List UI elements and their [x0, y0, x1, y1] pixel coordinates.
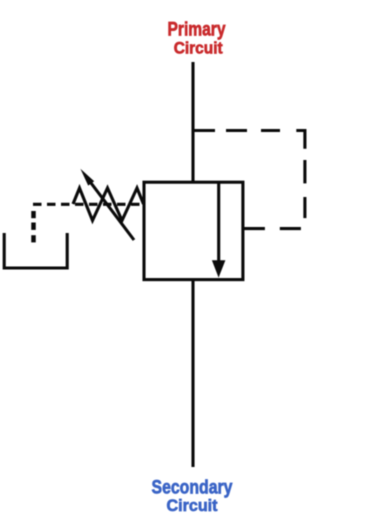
pilot line: right vertical dash 2 [303, 197, 306, 218]
drain pilot line: vertical dot 3 [31, 235, 36, 242]
svg-text:Circuit: Circuit [167, 496, 218, 515]
drain pilot line: vertical dot 1 [31, 211, 36, 218]
pilot line: corner dash (L shaped) [296, 131, 305, 149]
adjustability arrow (head) [80, 169, 94, 186]
drain pilot line: horizontal dashed [33, 203, 144, 206]
drain pilot line: vertical dot 2 [31, 223, 36, 230]
wire: secondary line (bottom vertical) [191, 280, 194, 467]
pilot line: right vertical dash 1 [303, 160, 306, 183]
tank (reservoir) symbol [4, 233, 67, 268]
wire: primary supply line (top vertical) [191, 62, 194, 182]
valve body (envelope box) [144, 182, 243, 279]
label: Secondary Circuit (blue) [152, 478, 233, 515]
svg-text:Circuit: Circuit [174, 38, 223, 57]
adjustability arrow (shaft) [90, 181, 135, 240]
internal flow path arrow (head) [212, 260, 226, 277]
pilot line: bottom horizontal dash 2 [280, 227, 301, 230]
spring (zigzag) [73, 188, 144, 221]
pilot line: top horizontal dash 3 [261, 129, 280, 132]
label: Primary Circuit (red) [168, 20, 226, 58]
pilot line: bottom horizontal dash 1 (at valve port) [243, 227, 265, 230]
pilot line: top horizontal dash 1 [193, 129, 215, 132]
internal flow path arrow (shaft) [217, 182, 220, 261]
pilot line: top horizontal dash 2 [226, 129, 247, 132]
